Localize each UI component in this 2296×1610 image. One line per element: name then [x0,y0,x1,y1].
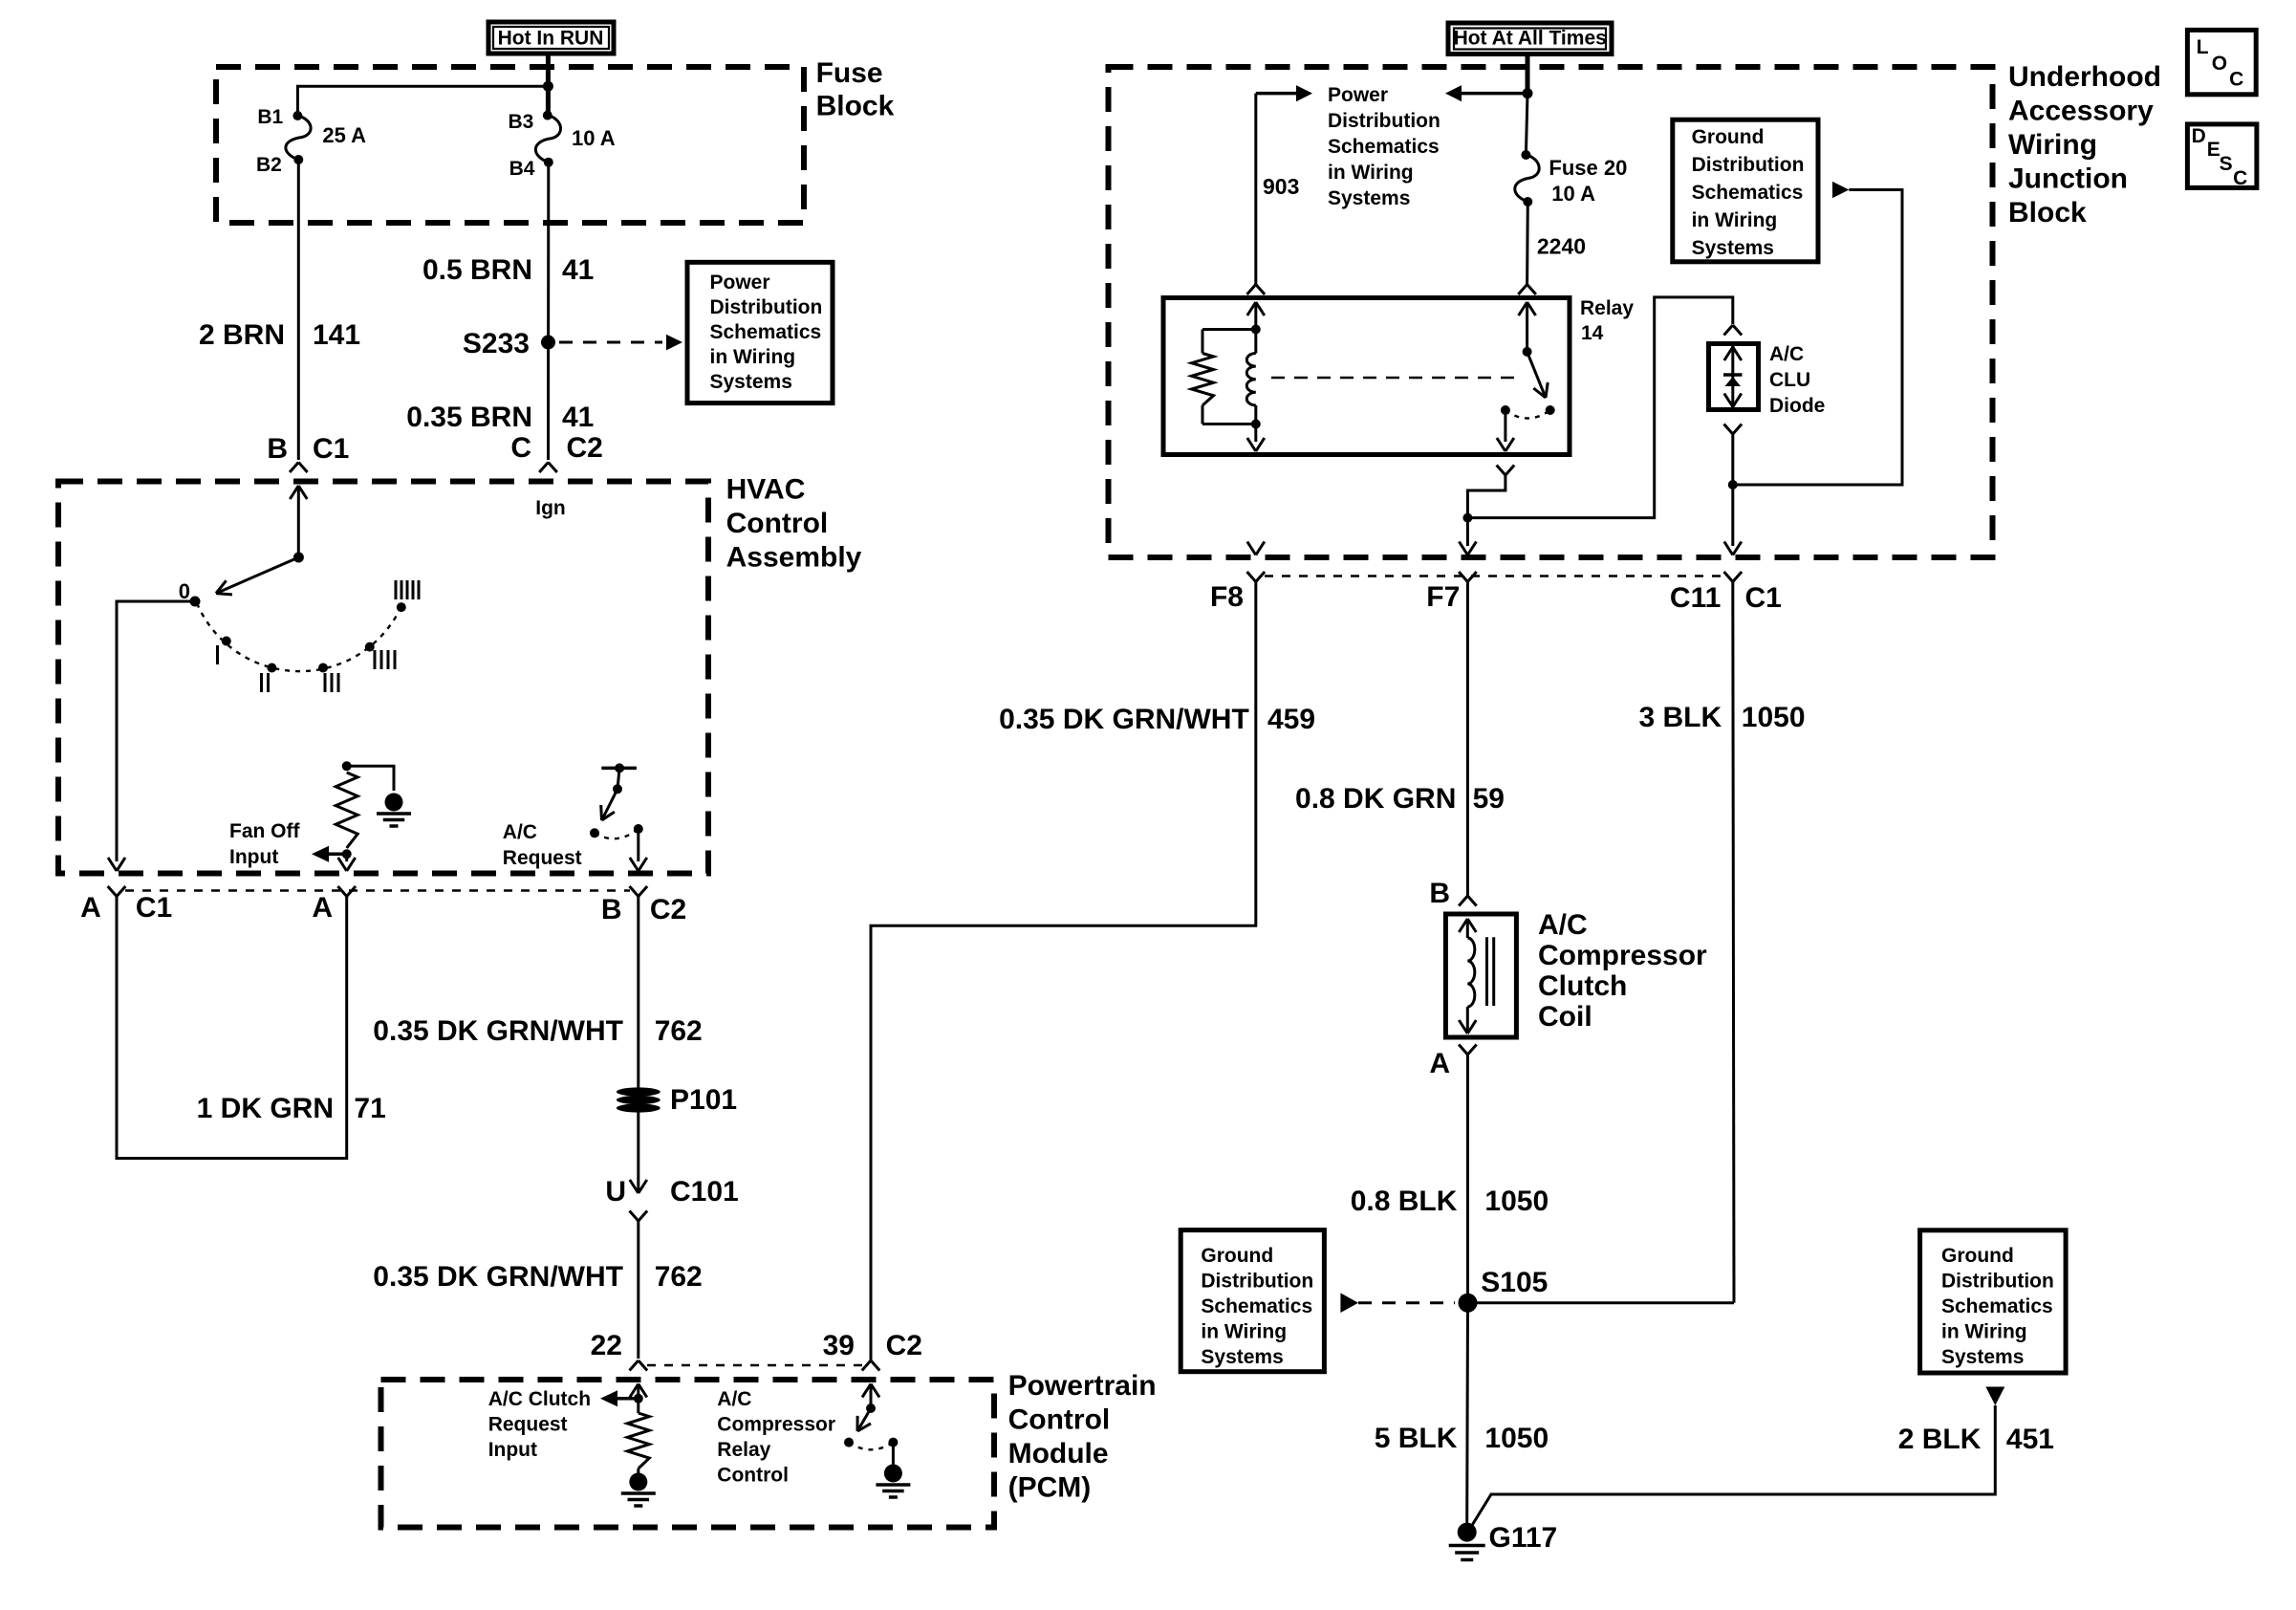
reference box: Ground Distribution Schematics in Wiring Systems (right) [1920,1230,2067,1373]
svg-text:B: B [1429,878,1450,909]
relay switch arm [1527,352,1546,398]
connector strip below HVAC (dashed) [125,889,630,891]
svg-text:762: 762 [655,1261,703,1293]
svg-text:HVAC: HVAC [726,474,806,506]
svg-text:1050: 1050 [1484,1423,1549,1454]
svg-text:Systems: Systems [1201,1346,1283,1368]
svg-text:39: 39 [823,1330,855,1361]
svg-text:1050: 1050 [1742,702,1806,733]
svg-text:Systems: Systems [1692,237,1774,259]
svg-text:P101: P101 [670,1084,737,1116]
svg-text:Underhood: Underhood [2008,61,2161,93]
svg-text:Fuse 20: Fuse 20 [1549,156,1627,180]
svg-text:762: 762 [655,1015,703,1047]
power feed label "Hot In RUN" [488,22,614,54]
svg-text:Distribution: Distribution [1201,1271,1313,1293]
HVAC control assembly boundary (dashed) [58,482,708,874]
svg-text:41: 41 [562,254,594,286]
wire: feed to fuse 20 [1526,94,1527,155]
wire: circuit 459 (F8 to PCM 39) [871,582,1256,1361]
wire: Hot In RUN into fuse block [546,56,551,87]
svg-text:Compressor: Compressor [1538,940,1707,971]
wire: S105 to C11 branch [1468,1301,1735,1304]
PCM relay driver switch [871,1384,879,1398]
svg-text:25 A: 25 A [322,123,366,147]
svg-text:2240: 2240 [1537,234,1586,259]
wire: pin 22 into PCM [639,1384,647,1398]
wire: branch to A/C CLU diode [1467,297,1732,518]
svg-text:14: 14 [1581,322,1604,344]
junction: diode / ground ref branch [1728,480,1738,490]
svg-text:Coil: Coil [1538,1001,1592,1033]
fuse 25 A (pins B1-B2) [292,111,302,120]
svg-text:Ground: Ground [1692,126,1765,148]
svg-text:in Wiring: in Wiring [1201,1321,1287,1343]
blower contact II [267,664,276,673]
blower switch contact 0 [190,597,201,607]
svg-text:451: 451 [2006,1424,2054,1455]
wire: circuit 41 upper segment [547,163,550,460]
svg-text:in Wiring: in Wiring [1328,162,1414,184]
svg-text:3 BLK: 3 BLK [1639,702,1722,733]
relay economizer resistor [1202,328,1256,331]
svg-text:S105: S105 [1481,1267,1548,1298]
svg-text:B1: B1 [257,106,283,128]
wire: F7 exit arrow [1459,542,1467,555]
svg-text:C1: C1 [313,433,349,465]
PCM boundary (dashed) [381,1380,995,1528]
svg-text:Diode: Diode [1769,395,1825,417]
svg-text:C2: C2 [567,432,603,464]
svg-text:0.35 DK GRN/WHT: 0.35 DK GRN/WHT [999,704,1249,735]
ground (PCM driver) [884,1465,902,1483]
wire: loop to ground distribution reference [1733,190,1902,486]
svg-text:L: L [2197,36,2209,58]
relay coil [1246,354,1256,405]
svg-text:41: 41 [562,402,594,433]
A/C clutch request input arrow [617,1397,639,1401]
svg-text:0.5 BRN: 0.5 BRN [422,254,532,286]
wire: pin B into blower switch [298,486,307,499]
wire: circuit 903 branch [1256,92,1296,96]
wire: F8 exit arrow [1247,542,1256,555]
fuse block boundary (dashed) [216,67,804,223]
svg-text:Request: Request [488,1414,568,1436]
connector C1 pin B (into HVAC) [290,463,298,473]
svg-text:Schematics: Schematics [1692,182,1804,204]
blower contact III [318,664,328,673]
svg-text:C101: C101 [670,1176,739,1207]
junction: blower switch pivot [293,553,304,563]
dashed reference arrow to power distribution box [559,341,662,344]
wire: into C101 [637,1111,639,1193]
wire: circuit 59 (F7 to clutch coil) [1466,582,1469,897]
svg-text:A/C: A/C [717,1388,751,1410]
svg-text:Distribution: Distribution [1328,110,1440,132]
connector pin B (clutch coil) [1459,896,1467,906]
svg-text:Systems: Systems [710,371,792,393]
A/C request switch [601,767,637,771]
connector C1 pin A (HVAC out) [108,886,117,897]
relay switch contacts [1546,405,1555,415]
underhood junction block boundary (dashed) [1109,67,1993,557]
blower contact IIII [365,642,375,652]
svg-text:Control: Control [1008,1404,1111,1436]
svg-text:Wiring: Wiring [2008,129,2097,161]
relay actuation dashed link [1271,377,1520,380]
svg-text:S233: S233 [463,328,530,359]
svg-text:A/C Clutch: A/C Clutch [488,1388,591,1410]
svg-text:Control: Control [726,508,829,539]
svg-text:2 BLK: 2 BLK [1898,1424,1982,1455]
connector pin 22 (into PCM) [630,1360,639,1371]
wire: circuit 1050 (S105 to G117) [1465,1303,1469,1523]
svg-text:A/C: A/C [503,821,537,843]
connector strip below junction block (dashed) [1265,575,1724,577]
svg-text:Systems: Systems [1328,187,1410,209]
blower contact IIIII (high) [397,602,406,612]
svg-text:Schematics: Schematics [710,321,822,343]
diode symbol [1723,373,1743,377]
svg-text:22: 22 [591,1330,622,1361]
svg-text:B: B [267,433,288,465]
wire: circuit 1050 (coil to S105) [1466,1055,1469,1303]
svg-text:0.35 BRN: 0.35 BRN [406,402,532,433]
wire: coil to F8 out [1254,424,1257,443]
A/C request switch contacts [590,828,599,838]
svg-text:O: O [2212,53,2227,75]
svg-text:10 A: 10 A [572,126,616,150]
svg-text:Hot At All Times: Hot At All Times [1454,28,1607,50]
svg-text:Ground: Ground [1201,1245,1273,1267]
wire: circuit 2240 [1526,202,1529,285]
svg-text:Fuse: Fuse [816,57,883,89]
svg-text:903: 903 [1263,174,1299,199]
svg-text:C: C [510,432,531,464]
svg-text:0: 0 [179,579,190,603]
wire: 1 DK GRN 71 loop [117,897,347,1159]
svg-text:59: 59 [1473,783,1505,815]
LOC legend box [2187,30,2256,94]
svg-text:Ign: Ign [535,497,566,519]
wire: circuit 1050 (C11 down) [1733,582,1734,1303]
svg-text:Power: Power [1328,84,1388,106]
wire: fan off to pin A [345,854,348,861]
junction: hot feed node [1523,88,1533,98]
wire: A/C request to pin B [637,829,639,861]
wire: contact 0 to pin A [117,601,195,861]
svg-text:C1: C1 [136,892,172,924]
blower switch rotary arc (dashed) [197,603,401,671]
wire: circuit 451 (G117 to ground ref) [1471,1405,1995,1527]
reference box: Power Distribution Schematics in Wiring Systems [687,262,833,402]
svg-text:D: D [2192,125,2206,147]
svg-text:Schematics: Schematics [1201,1295,1312,1317]
svg-text:0.8 BLK: 0.8 BLK [1351,1186,1458,1217]
connector C2 pin B (HVAC out) [630,886,639,897]
svg-text:C2: C2 [650,894,686,925]
svg-text:0.35 DK GRN/WHT: 0.35 DK GRN/WHT [373,1015,623,1047]
svg-text:in Wiring: in Wiring [710,346,796,368]
svg-text:Compressor: Compressor [717,1414,835,1436]
clutch coil winding [1467,938,1475,1007]
svg-text:0.8 DK GRN: 0.8 DK GRN [1295,783,1456,815]
svg-text:Input: Input [229,846,278,868]
svg-text:A: A [312,892,333,924]
wire: C11 exit arrow [1724,542,1733,555]
relay 14 box [1247,285,1256,295]
svg-text:G117: G117 [1489,1522,1558,1554]
wire: relay output to F7 [1504,410,1506,442]
wire: feed across to fuse 25A [297,86,548,112]
wire: diode to C11 [1724,424,1733,435]
svg-text:Distribution: Distribution [710,296,823,318]
wire: switch to ground [892,1443,895,1467]
svg-text:1 DK GRN: 1 DK GRN [197,1093,334,1124]
wire: circuit 762 upper [637,897,639,1090]
svg-text:Relay: Relay [1580,297,1634,319]
wire: circuit 141 (fuse block to HVAC) [297,160,300,460]
svg-text:(PCM): (PCM) [1008,1472,1092,1504]
svg-text:Power: Power [710,272,770,294]
svg-text:Hot In RUN: Hot In RUN [498,28,604,50]
inline connector P101 [617,1087,661,1096]
reference box: Ground Distribution Schematics in Wiring Systems (junction block) [1673,120,1818,262]
A/C CLU diode box [1709,344,1759,410]
relay switch leg [1527,302,1536,315]
svg-text:Schematics: Schematics [1328,136,1440,158]
junction: fan off tap [342,849,352,859]
connector C101 pin U [630,1211,639,1222]
splice S233 [541,336,555,350]
reference triangle to ground box [1985,1387,2004,1406]
svg-text:141: 141 [313,319,360,351]
svg-text:Schematics: Schematics [1941,1295,2053,1317]
svg-text:B3: B3 [508,111,533,133]
svg-text:71: 71 [354,1093,385,1124]
svg-text:C: C [2233,167,2247,189]
svg-text:Module: Module [1008,1438,1109,1469]
svg-text:A: A [1429,1048,1450,1079]
svg-text:Request: Request [503,847,582,869]
svg-text:Powertrain: Powertrain [1008,1370,1157,1402]
dashed reference arrow to S105 [1340,1293,1358,1313]
svg-text:Input: Input [488,1439,537,1461]
svg-text:C: C [2229,68,2243,90]
ground G117 [1458,1523,1477,1542]
reference arrow to power distribution (left) [1462,92,1527,96]
svg-text:5 BLK: 5 BLK [1375,1423,1458,1454]
svg-text:C2: C2 [886,1330,922,1361]
svg-text:A: A [80,892,101,924]
svg-text:A/C: A/C [1769,343,1804,365]
wire: hot feed into junction block [1526,56,1530,94]
svg-text:in Wiring: in Wiring [1692,209,1778,231]
connector pin A (clutch coil) [1459,1045,1467,1055]
svg-text:10 A: 10 A [1551,182,1595,206]
svg-text:Fan Off: Fan Off [229,820,300,842]
fan off input resistor [342,761,352,771]
DESC legend box [2187,124,2257,188]
clutch coil core bars [1485,937,1488,1006]
svg-text:2 BRN: 2 BRN [199,319,285,351]
A/C compressor clutch coil box [1445,914,1516,1037]
connector C2 pin 39 (into PCM) [862,1360,871,1371]
svg-text:459: 459 [1267,704,1315,735]
blower switch wiper arm [216,557,298,594]
svg-text:B: B [601,894,622,925]
svg-text:Relay: Relay [717,1439,770,1461]
fuse 20 10 A [1521,150,1530,160]
svg-text:Assembly: Assembly [726,542,862,574]
svg-text:B2: B2 [256,154,282,176]
relay coil leg [1256,302,1265,315]
reference box: Ground Distribution Schematics in Wiring Systems (left) [1180,1230,1324,1372]
junction: F7 / diode branch [1462,513,1472,523]
svg-text:U: U [605,1176,626,1207]
svg-text:B4: B4 [509,158,535,180]
svg-text:CLU: CLU [1769,369,1810,391]
connector C1 pin C11 [1724,572,1733,582]
svg-text:S: S [2220,153,2233,175]
svg-text:Block: Block [816,91,895,122]
ground (PCM request) [629,1473,647,1491]
PCM switch contacts [844,1438,854,1447]
power feed label "Hot At All Times" [1448,23,1612,54]
svg-text:0.35 DK GRN/WHT: 0.35 DK GRN/WHT [373,1261,623,1293]
fuse 10 A (pins B3-B4) [543,111,552,120]
svg-text:in Wiring: in Wiring [1941,1321,2027,1343]
junction: fuse feed node [543,81,553,92]
svg-text:A/C: A/C [1538,909,1588,941]
connector strip above PCM (dashed) [647,1364,862,1366]
svg-text:Distribution: Distribution [1692,154,1805,176]
svg-text:Distribution: Distribution [1941,1271,2054,1293]
fan off input arrow [329,853,347,857]
connector C2 pin C (into HVAC) [539,463,548,473]
connector pin F8 [1247,572,1256,582]
svg-text:Clutch: Clutch [1538,970,1627,1002]
ground (HVAC internal) [385,794,403,812]
svg-text:Accessory: Accessory [2008,96,2154,127]
wire: feed to fuse 10A [546,86,551,112]
blower contact I [222,637,231,646]
svg-text:C1: C1 [1745,582,1782,614]
svg-text:F7: F7 [1426,581,1460,613]
svg-text:F8: F8 [1210,581,1244,613]
connector pin F7 [1459,572,1467,582]
junction: clutch request tap [634,1394,643,1403]
svg-text:Control: Control [717,1465,789,1487]
svg-text:Ground: Ground [1941,1245,2014,1267]
connector pin A (fan off) [337,886,346,897]
wire: circuit 762 lower [637,1221,639,1359]
PCM pull-down resistor [627,1413,649,1469]
svg-text:Block: Block [2008,197,2087,228]
svg-text:1050: 1050 [1484,1186,1549,1217]
splice S105 [1459,1294,1478,1313]
svg-text:Junction: Junction [2008,163,2128,195]
svg-text:Systems: Systems [1941,1346,2024,1368]
svg-text:C11: C11 [1670,582,1721,614]
